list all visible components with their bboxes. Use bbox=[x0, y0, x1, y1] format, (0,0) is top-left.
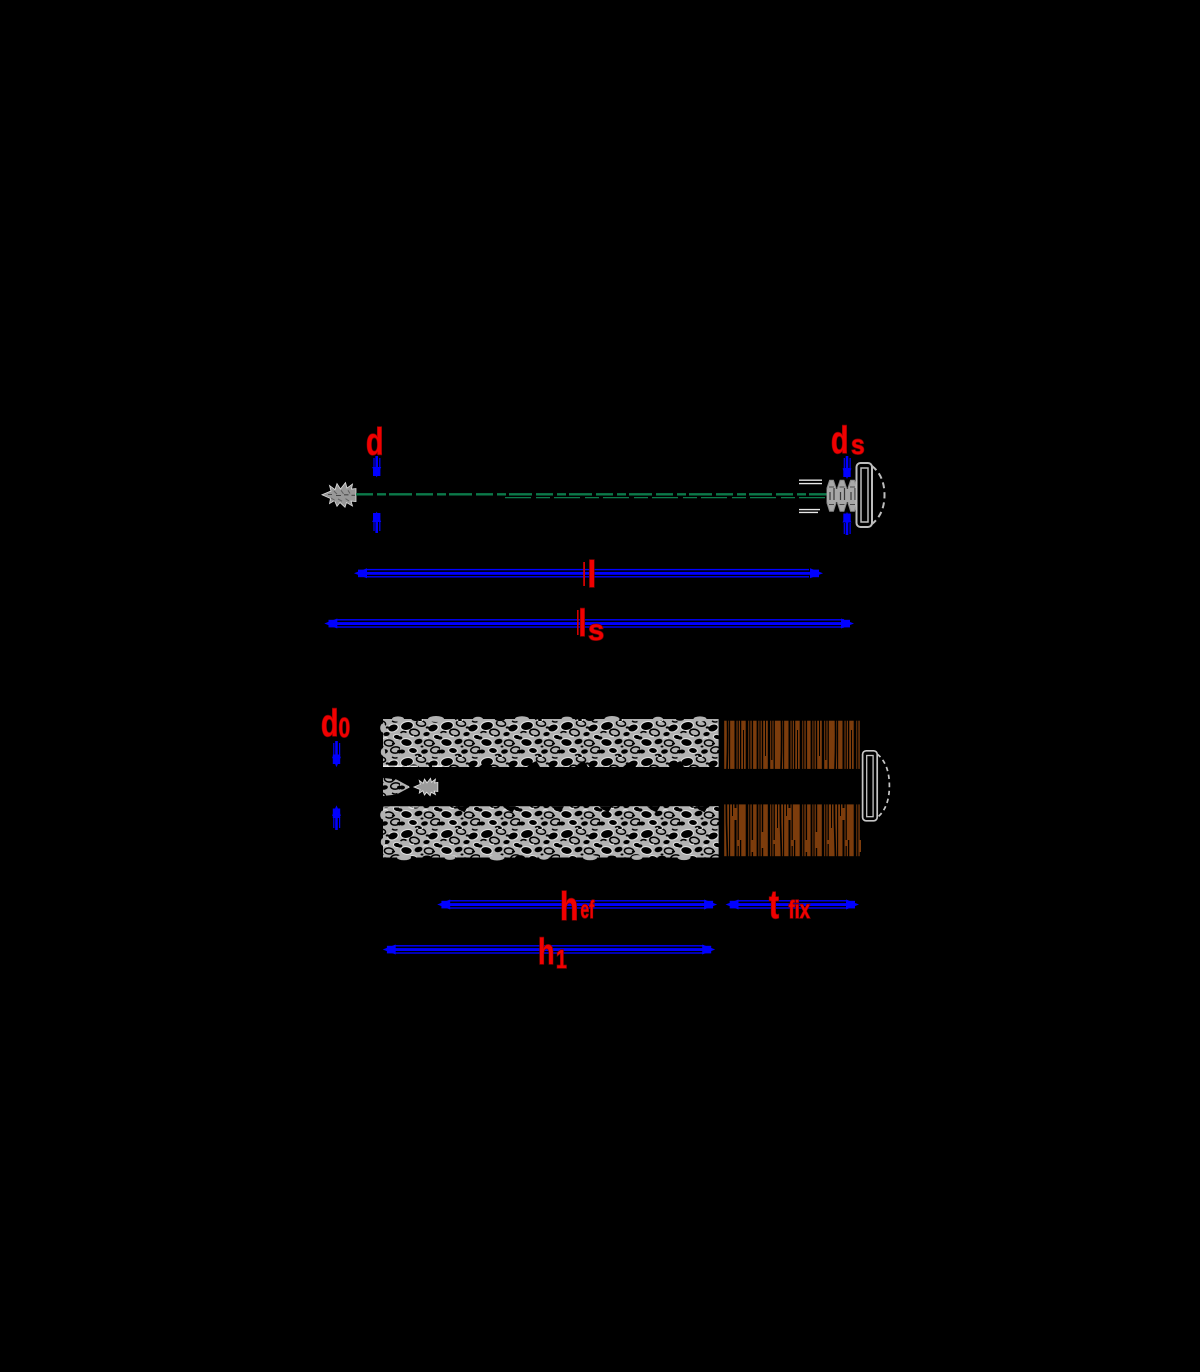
screw axis green dashed centerline bbox=[356, 494, 830, 497]
concrete top band bbox=[383, 719, 719, 767]
concrete wall with drilled hole bbox=[380, 716, 718, 861]
dimension ls horizontal line bbox=[324, 619, 854, 629]
concrete bottom band bbox=[383, 806, 719, 857]
svg-text:d: d bbox=[321, 703, 338, 745]
washer hidden lines left of head bbox=[799, 480, 822, 512]
svg-text:d: d bbox=[831, 420, 848, 462]
concrete irregular edge bumps bbox=[380, 716, 706, 861]
screw tip inside hole bbox=[414, 778, 438, 795]
svg-text:h: h bbox=[538, 931, 554, 972]
insulation (wood) top band bbox=[724, 720, 862, 769]
dimension h1 horizontal line bbox=[383, 945, 716, 955]
insulation (wood) bottom band bbox=[724, 804, 862, 857]
dimension d0 vertical line with arrows bbox=[332, 741, 341, 830]
dimension d vertical line with arrows bbox=[372, 456, 381, 533]
thread bite nicks on hole edges bbox=[455, 761, 708, 812]
svg-text:1: 1 bbox=[556, 944, 567, 973]
lower screw head plate bbox=[863, 751, 878, 821]
head slot inner rect bbox=[861, 468, 868, 522]
svg-text:l: l bbox=[588, 555, 597, 596]
svg-text:ef: ef bbox=[581, 896, 595, 924]
svg-text:l: l bbox=[579, 603, 587, 645]
svg-text:0: 0 bbox=[339, 713, 351, 744]
dimension t fix horizontal line bbox=[726, 900, 860, 910]
thread near head bbox=[827, 480, 857, 511]
hole mouth white highlights bbox=[383, 765, 442, 767]
svg-text:t: t bbox=[769, 883, 779, 927]
dimension ds vertical line with arrows bbox=[843, 456, 852, 535]
screw head plate (top diagram) bbox=[857, 463, 873, 527]
lower head dome (dashed) bbox=[877, 754, 889, 818]
lower head slot inner rect bbox=[867, 756, 873, 817]
svg-text:d: d bbox=[366, 422, 383, 464]
concrete left wall wedge at hole end bbox=[383, 778, 410, 796]
dimension hef horizontal line bbox=[437, 900, 717, 910]
svg-text:fix: fix bbox=[789, 895, 811, 923]
svg-text:s: s bbox=[588, 614, 604, 647]
svg-text:s: s bbox=[851, 429, 865, 461]
svg-text:h: h bbox=[560, 885, 578, 929]
dimension l horizontal line bbox=[354, 568, 823, 578]
screw tip (left) bbox=[322, 483, 356, 508]
head dome (dashed) bbox=[872, 466, 885, 524]
